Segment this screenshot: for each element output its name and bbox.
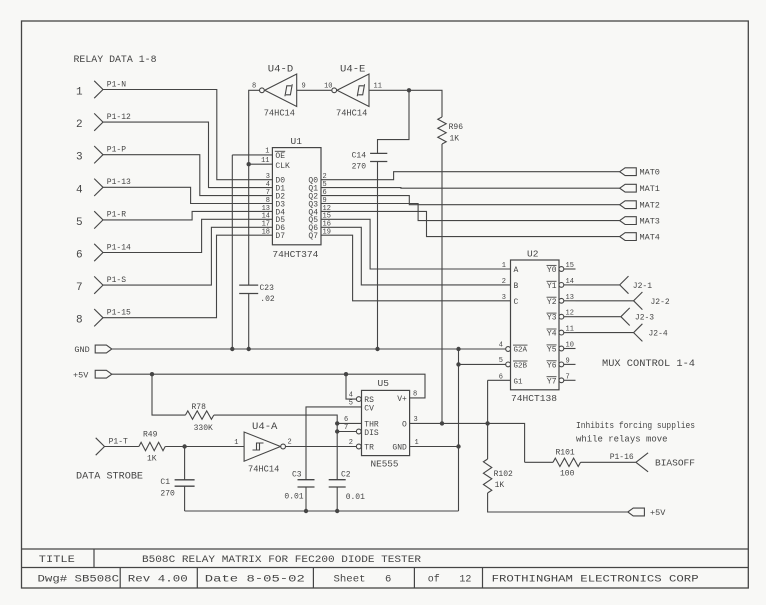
wire +5V to R78 <box>152 374 185 415</box>
pin 11 Y4 bubble+stub <box>559 326 576 335</box>
pin 6 G1 stub <box>488 374 511 382</box>
svg-text:Y5: Y5 <box>547 346 557 355</box>
svg-text:6: 6 <box>499 374 503 382</box>
svg-text:1K: 1K <box>450 135 460 144</box>
svg-text:5: 5 <box>76 217 83 229</box>
pin 9 Y6 bubble+stub <box>559 357 576 366</box>
capacitor C3 <box>284 471 314 502</box>
svg-text:15: 15 <box>566 262 574 270</box>
svg-text:U4-A: U4-A <box>252 422 277 433</box>
svg-text:1: 1 <box>415 439 419 447</box>
node MAT2 output flag <box>620 201 660 211</box>
wire R78 to THR/DIS column <box>214 415 337 480</box>
svg-text:6: 6 <box>76 250 83 262</box>
wire U4-E input to R96 top <box>369 90 442 117</box>
node 555 GND junction <box>456 444 460 448</box>
svg-text:10: 10 <box>324 83 332 91</box>
svg-text:Dwg# SB508C: Dwg# SB508C <box>38 574 120 586</box>
power +5V input flag <box>73 370 112 380</box>
pin 14 Y1 bubble+stub <box>559 278 576 287</box>
wire GND rail <box>112 348 506 350</box>
wire U1 Q1 to MAT1 <box>321 187 620 190</box>
resistor R102 <box>483 459 513 493</box>
pin 7 Y7 bubble+stub <box>559 373 576 382</box>
svg-text:D7: D7 <box>275 232 285 241</box>
svg-text:Y3: Y3 <box>547 314 557 323</box>
svg-text:Y2: Y2 <box>547 298 557 307</box>
svg-text:MAT1: MAT1 <box>640 184 660 194</box>
svg-text:11: 11 <box>374 83 382 91</box>
wire P1-N to U1 D0 <box>103 90 272 180</box>
svg-text:Y1: Y1 <box>547 282 557 291</box>
svg-text:6: 6 <box>385 574 391 586</box>
svg-text:2: 2 <box>288 438 292 446</box>
svg-text:330K: 330K <box>194 424 213 433</box>
svg-text:U5: U5 <box>378 378 390 389</box>
svg-text:P1-T: P1-T <box>109 438 128 447</box>
svg-text:R78: R78 <box>192 403 207 412</box>
svg-text:10: 10 <box>566 342 574 350</box>
svg-text:3: 3 <box>502 294 506 302</box>
svg-text:270: 270 <box>352 163 367 172</box>
node C23-GND junction <box>247 347 251 351</box>
wire U1 Q0 to MAT0 <box>321 172 620 180</box>
wire to R101 <box>525 461 553 463</box>
svg-text:5: 5 <box>499 357 503 365</box>
node C14-GND junction <box>375 347 379 351</box>
pin 1 OE stub <box>232 148 272 156</box>
svg-text:P1-15: P1-15 <box>107 309 131 318</box>
wire U1 Q6 to U2 B <box>321 227 511 285</box>
wire junction down to C1 <box>184 447 186 480</box>
svg-text:CV: CV <box>364 404 374 413</box>
node R96 output junction <box>440 421 444 425</box>
svg-text:7: 7 <box>566 373 570 381</box>
wire U1 Q3 to MAT3 <box>321 204 620 221</box>
wire P1-15 to U1 D7 <box>103 235 272 318</box>
wire P1-R to U1 D4 <box>103 211 272 220</box>
svg-text:Inhibits forcing supplies: Inhibits forcing supplies <box>576 421 695 431</box>
connector P1-R (input 5) <box>76 211 126 229</box>
svg-text:while relays move: while relays move <box>576 435 668 445</box>
svg-text:B: B <box>514 282 519 291</box>
node CLK junction <box>247 162 251 166</box>
wire Y2 to J2-2 <box>576 300 634 302</box>
svg-text:4: 4 <box>76 184 83 196</box>
node C2 bottom junction <box>335 509 339 513</box>
svg-text:0.01: 0.01 <box>346 493 365 502</box>
pin 13 Y2 bubble+stub <box>559 294 576 303</box>
wire U4-E output to U4-D input <box>297 83 333 91</box>
capacitor C2 <box>329 471 365 502</box>
svg-text:OE: OE <box>275 152 285 161</box>
capacitor C1 <box>160 478 194 499</box>
svg-text:CLK: CLK <box>275 162 290 171</box>
connector J2-4 <box>634 324 668 342</box>
svg-text:P1-R: P1-R <box>107 211 126 220</box>
svg-text:C14: C14 <box>352 152 367 161</box>
node MAT0 output flag <box>620 168 660 178</box>
node THR junction <box>335 421 339 425</box>
connector P1-13 (input 4) <box>76 178 131 196</box>
svg-text:2: 2 <box>502 278 506 286</box>
wire C14 bottom to GND rail <box>377 162 379 350</box>
svg-text:+5V: +5V <box>650 508 666 518</box>
svg-text:Y0: Y0 <box>547 266 557 275</box>
wire +5V rail <box>112 374 425 398</box>
svg-text:74HCT374: 74HCT374 <box>272 249 318 260</box>
svg-text:O: O <box>402 420 407 429</box>
svg-text:0.01: 0.01 <box>284 493 303 502</box>
svg-text:74HCT138: 74HCT138 <box>511 393 557 404</box>
svg-text:+5V: +5V <box>73 370 89 380</box>
svg-text:8: 8 <box>266 197 270 205</box>
wire CLK node to C23 <box>248 164 250 285</box>
svg-text:G1: G1 <box>514 378 524 386</box>
node GND rail branch junction <box>456 347 460 351</box>
svg-text:P1-P: P1-P <box>107 146 126 155</box>
svg-text:U1: U1 <box>291 136 303 147</box>
wire U4-A output to 555 TR <box>286 446 357 448</box>
capacitor C23 <box>239 284 275 304</box>
IC U2 74HCT138 decoder body <box>511 249 560 405</box>
svg-text:18: 18 <box>262 229 270 237</box>
svg-text:3: 3 <box>414 416 418 424</box>
svg-text:P1-13: P1-13 <box>107 178 131 187</box>
svg-text:C3: C3 <box>292 471 302 480</box>
connector P1-N (input 1) <box>76 80 126 98</box>
node R78-+5V junction <box>150 372 154 376</box>
resistor R78 <box>185 403 213 433</box>
svg-text:4: 4 <box>499 342 503 350</box>
connector J2-1 <box>620 276 653 294</box>
pin 12 Y3 bubble+stub <box>559 310 576 319</box>
wire junction down to R102 <box>487 423 489 459</box>
wire Y4 to J2-4 <box>576 332 634 334</box>
svg-text:GND: GND <box>74 345 89 355</box>
svg-text:17: 17 <box>262 221 270 229</box>
wire node to C14 <box>378 90 410 153</box>
wire U1 Q4 to MAT4 <box>321 211 620 236</box>
svg-text:100: 100 <box>560 470 575 479</box>
svg-text:TITLE: TITLE <box>39 554 75 566</box>
wire 555 CV to C3 <box>306 407 362 480</box>
svg-text:3: 3 <box>266 173 270 181</box>
svg-text:Y6: Y6 <box>547 361 557 370</box>
pin 4 G2A bubble <box>499 342 511 352</box>
svg-text:270: 270 <box>160 490 175 499</box>
svg-text:Q7: Q7 <box>308 232 318 241</box>
svg-text:C23: C23 <box>260 284 275 293</box>
svg-text:Date 8-05-02: Date 8-05-02 <box>205 574 305 586</box>
svg-text:.02: .02 <box>260 295 275 304</box>
node OE-GND junction <box>230 347 234 351</box>
svg-text:11: 11 <box>261 157 269 165</box>
inverter U4-E 74HC14 <box>332 65 382 119</box>
wire THR stub <box>337 422 361 424</box>
node RS-+5V junction <box>344 372 348 376</box>
wire P1-14 to U1 D5 <box>103 219 272 252</box>
svg-text:RELAY DATA 1-8: RELAY DATA 1-8 <box>74 55 157 66</box>
svg-text:TR: TR <box>364 444 374 453</box>
svg-text:R101: R101 <box>556 449 575 458</box>
svg-text:12: 12 <box>566 310 574 318</box>
svg-text:7: 7 <box>76 282 83 294</box>
wire R102 to +5V flag <box>488 493 628 512</box>
svg-text:P1-16: P1-16 <box>610 453 634 462</box>
svg-text:P1-N: P1-N <box>107 80 126 89</box>
resistor R49 <box>139 430 165 463</box>
svg-text:1: 1 <box>502 262 506 270</box>
svg-text:A: A <box>514 266 519 275</box>
svg-text:R49: R49 <box>143 430 158 439</box>
wire U4-D output to CLK <box>249 90 260 164</box>
wire U1 Q2 to MAT2 <box>321 196 620 205</box>
svg-text:13: 13 <box>566 294 574 302</box>
svg-text:1: 1 <box>76 87 83 99</box>
ground GND input flag <box>74 345 111 355</box>
svg-text:J2-4: J2-4 <box>649 330 668 339</box>
svg-text:6: 6 <box>344 416 348 424</box>
wire GND branch down to bottom rail <box>458 349 460 511</box>
wire U1 Q5 to U2 A <box>321 219 511 269</box>
svg-text:Rev 4.00: Rev 4.00 <box>128 574 188 586</box>
svg-text:14: 14 <box>566 278 574 286</box>
svg-text:1: 1 <box>234 439 238 447</box>
svg-text:U4-E: U4-E <box>340 65 365 76</box>
svg-text:G2A: G2A <box>514 347 528 355</box>
connector P1-15 (input 8) <box>76 309 131 327</box>
svg-text:U2: U2 <box>527 249 539 260</box>
svg-text:13: 13 <box>262 205 270 213</box>
svg-text:9: 9 <box>302 83 306 91</box>
wire Y1 to J2-1 <box>576 284 620 286</box>
svg-text:P1-14: P1-14 <box>107 243 131 252</box>
svg-text:P1-12: P1-12 <box>107 113 131 122</box>
svg-text:8: 8 <box>252 83 256 91</box>
svg-text:12: 12 <box>459 574 471 586</box>
svg-text:C: C <box>514 298 519 307</box>
connector P1-T input <box>96 438 128 456</box>
svg-text:Y4: Y4 <box>547 330 557 339</box>
wire P1-S to U1 D6 <box>103 227 272 285</box>
wire P1-P to U1 D2 <box>103 155 272 196</box>
svg-text:4: 4 <box>349 392 353 400</box>
svg-text:1K: 1K <box>495 481 505 490</box>
node C3 bottom junction <box>304 509 308 513</box>
svg-text:B508C RELAY MATRIX FOR FEC200: B508C RELAY MATRIX FOR FEC200 DIODE TEST… <box>142 554 422 566</box>
svg-text:C1: C1 <box>160 478 170 487</box>
wire P1-13 to U1 D3 <box>103 187 272 203</box>
connector P1-S (input 7) <box>76 276 126 294</box>
connector J2-3 <box>621 308 654 326</box>
pin 4 RS bubble <box>349 392 361 402</box>
pin 10 Y5 bubble+stub <box>559 342 576 351</box>
node MAT4 output flag <box>620 233 660 243</box>
svg-text:4: 4 <box>266 181 270 189</box>
resistor R101 <box>553 449 581 479</box>
node DIS junction <box>335 429 339 433</box>
IC U1 74HCT374 octal register body <box>272 136 321 260</box>
svg-text:DATA STROBE: DATA STROBE <box>76 472 143 483</box>
pin 11 CLK stub <box>249 157 273 165</box>
svg-text:R102: R102 <box>494 470 513 479</box>
wire P1-12 to U1 D1 <box>103 122 272 188</box>
svg-text:9: 9 <box>566 357 570 365</box>
pin 2 TR bubble <box>349 439 361 449</box>
svg-text:5: 5 <box>349 400 353 408</box>
pin 15 Y0 bubble+stub <box>559 262 576 271</box>
wire 555 GND to ground branch <box>410 446 459 448</box>
svg-text:NE555: NE555 <box>371 459 399 470</box>
capacitor C14 <box>352 152 388 172</box>
svg-text:G2B: G2B <box>514 362 528 370</box>
svg-text:2: 2 <box>76 119 83 131</box>
connector P1-14 (input 6) <box>76 243 131 261</box>
wire C2 bottom to rail <box>336 487 338 511</box>
svg-text:74HC14: 74HC14 <box>248 464 280 475</box>
svg-text:P1-S: P1-S <box>107 276 126 285</box>
svg-text:DIS: DIS <box>364 429 379 438</box>
pin 5 G2B bubble <box>499 357 511 367</box>
node inverter input junction <box>407 88 411 92</box>
wire junction to U2 G2B <box>459 363 506 365</box>
svg-text:7: 7 <box>266 189 270 197</box>
wire +5V to 555 RS <box>346 374 356 399</box>
svg-text:FROTHINGHAM ELECTRONICS CORP: FROTHINGHAM ELECTRONICS CORP <box>492 574 699 586</box>
power +5V flag bottom right <box>628 508 666 518</box>
wire Y3 to J2-3 <box>576 316 621 318</box>
svg-text:2: 2 <box>349 439 353 447</box>
wire C1 bottom to bottom rail <box>184 486 186 511</box>
svg-text:MUX CONTROL 1-4: MUX CONTROL 1-4 <box>602 359 695 370</box>
node G2B junction <box>456 362 460 366</box>
inverter U4-D 74HC14 <box>252 65 297 119</box>
wire R49 to U4-A input <box>165 446 244 448</box>
svg-text:7: 7 <box>344 424 348 432</box>
wire DIS stub <box>337 431 356 433</box>
svg-text:U4-D: U4-D <box>268 65 293 76</box>
svg-text:74HC14: 74HC14 <box>264 108 296 119</box>
svg-text:BIASOFF: BIASOFF <box>655 458 695 469</box>
svg-text:J2-2: J2-2 <box>651 298 670 307</box>
svg-text:MAT0: MAT0 <box>640 168 660 178</box>
connector P1-P (input 3) <box>76 146 126 164</box>
svg-text:8: 8 <box>413 390 417 398</box>
wire U1 Q7 to U2 C <box>321 235 511 301</box>
svg-text:C2: C2 <box>341 471 351 480</box>
resistor R96 <box>438 117 463 144</box>
svg-text:Sheet: Sheet <box>334 574 366 586</box>
svg-text:74HC14: 74HC14 <box>336 108 368 119</box>
svg-text:11: 11 <box>566 326 574 334</box>
svg-text:MAT4: MAT4 <box>640 233 660 243</box>
node R49-C1-U4A junction <box>182 444 186 448</box>
wire 555 output line <box>410 423 525 462</box>
svg-text:R96: R96 <box>449 123 464 132</box>
wire P1-T to R49 <box>105 446 139 448</box>
connector BIASOFF <box>636 453 695 472</box>
svg-text:MAT3: MAT3 <box>640 217 660 227</box>
wire R101 to BIASOFF <box>581 453 636 462</box>
wire bottom ground rail <box>185 510 459 512</box>
svg-text:3: 3 <box>76 152 83 164</box>
connector J2-2 <box>634 292 670 310</box>
node G1/R102 junction <box>485 421 489 425</box>
connector P1-12 (input 2) <box>76 113 131 131</box>
wire R96 bottom to 555 output line <box>441 144 443 423</box>
pin 7 DIS bubble <box>344 424 361 434</box>
inverter U4-A 74HC14 <box>234 422 291 475</box>
svg-text:1K: 1K <box>147 454 157 463</box>
wire OE to GND rail <box>231 155 233 349</box>
svg-text:Y7: Y7 <box>547 377 557 386</box>
node MAT3 output flag <box>620 217 660 227</box>
svg-text:MAT2: MAT2 <box>640 201 660 211</box>
svg-text:J2-3: J2-3 <box>635 314 654 323</box>
label inhibits note <box>576 421 695 445</box>
svg-text:J2-1: J2-1 <box>633 282 652 291</box>
svg-text:GND: GND <box>392 444 407 453</box>
svg-text:V+: V+ <box>397 395 407 404</box>
IC U5 NE555 timer body <box>362 378 410 469</box>
wire C3 bottom to rail <box>305 487 307 511</box>
svg-text:1: 1 <box>265 148 269 156</box>
wire C23 bottom to GND rail <box>248 294 250 350</box>
svg-text:8: 8 <box>76 315 83 327</box>
node MAT1 output flag <box>620 184 660 194</box>
svg-text:14: 14 <box>262 213 270 221</box>
wire G1 down to 555 output line <box>487 380 489 423</box>
svg-text:of: of <box>428 574 440 586</box>
